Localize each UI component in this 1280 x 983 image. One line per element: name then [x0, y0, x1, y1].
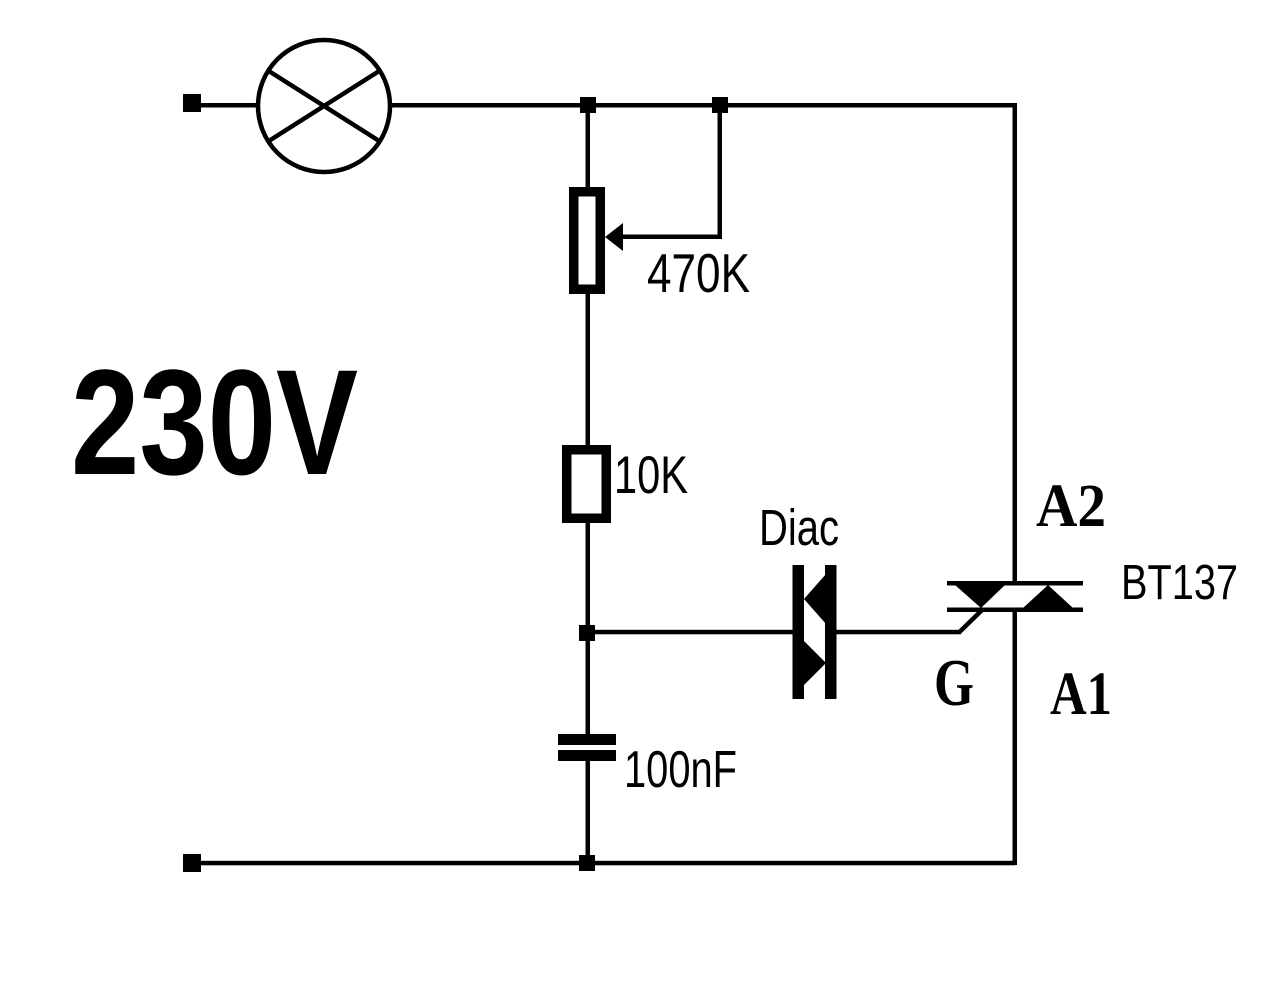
- wiper arrow of P1: [605, 223, 623, 251]
- svg-text:BT137: BT137: [1121, 556, 1238, 610]
- svg-text:10K: 10K: [614, 446, 688, 505]
- wire (top-right corner down to triac A2): [1013, 103, 1018, 581]
- node B (junction, wiper feed): [712, 97, 728, 113]
- wire (node A to node B): [588, 103, 720, 108]
- wire (lamp to node A): [390, 103, 588, 108]
- diac D1: [793, 565, 837, 699]
- potentiometer P1 body (470K): [569, 187, 605, 294]
- label 230V (mains voltage): [71, 338, 358, 506]
- svg-text:A2: A2: [1036, 473, 1106, 540]
- svg-text:Diac: Diac: [759, 499, 839, 556]
- terminal (bottom-left mains terminal): [183, 854, 201, 872]
- label G (gate): [934, 646, 974, 720]
- wire (node A down to potentiometer P1): [586, 105, 591, 188]
- lamp LA1 (circle with X): [258, 40, 390, 172]
- svg-text:A1: A1: [1050, 661, 1112, 728]
- wire (potentiometer to resistor R1): [586, 294, 591, 445]
- node C (junction, RC node): [579, 625, 595, 641]
- label BT137: [1121, 556, 1238, 610]
- svg-text:230V: 230V: [71, 338, 358, 506]
- label Diac: [759, 499, 839, 556]
- svg-text:470K: 470K: [647, 242, 750, 304]
- wire (node B down to wiper): [718, 105, 723, 239]
- label A1: [1050, 661, 1112, 728]
- node D (junction on bottom rail): [579, 855, 595, 871]
- wire (node C to diac): [587, 630, 793, 635]
- label A2: [1036, 473, 1106, 540]
- wire (node C down to capacitor C1): [586, 641, 591, 734]
- label 10K: [614, 446, 688, 505]
- capacitor C1 plates (100nF): [558, 734, 616, 761]
- svg-text:100nF: 100nF: [624, 741, 737, 799]
- resistor R1 body (10K): [562, 445, 611, 523]
- wire (capacitor C1 to node D): [586, 761, 591, 863]
- label 470K: [647, 242, 750, 304]
- wire (left terminal to lamp): [192, 103, 259, 108]
- wire (diac to triac gate): [836, 610, 982, 634]
- wire (triac A1 down to bottom rail): [1013, 610, 1018, 865]
- svg-text:G: G: [934, 646, 974, 720]
- triac T1 (BT137): [947, 581, 1083, 612]
- wire (wiper horizontal run): [618, 235, 722, 240]
- wire (node B to top-right corner): [720, 103, 1016, 108]
- label 100nF: [624, 741, 737, 799]
- terminal (top-left mains terminal): [183, 94, 201, 112]
- wire (resistor R1 to node C): [586, 523, 591, 625]
- node A (junction, top of potentiometer branch): [580, 97, 596, 113]
- wire (bottom rail): [192, 861, 1015, 866]
